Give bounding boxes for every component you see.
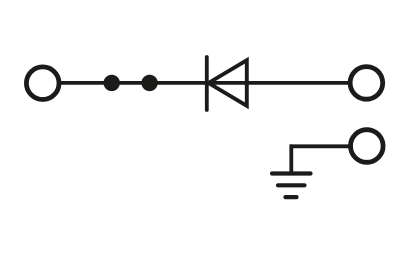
- wire: vertical ground stem: [289, 144, 293, 173]
- diode D1 cathode bar: [205, 57, 209, 110]
- terminal circle right top (clamp point 2): [350, 67, 383, 100]
- ground: middle bar: [278, 183, 305, 187]
- terminal circle bottom right (PE clamp point): [351, 130, 384, 163]
- diode D1 anode triangle (pointing left): [209, 60, 247, 106]
- ground: bottom bar: [286, 195, 297, 199]
- terminal circle left (clamp point 1): [26, 67, 59, 100]
- wire: main horizontal conductor between left and right terminals: [59, 81, 350, 85]
- ground: top bar: [272, 171, 311, 175]
- wire: horizontal from ground stem to PE terminal: [290, 144, 351, 148]
- node junction dot 1: [104, 75, 120, 91]
- node junction dot 2: [141, 75, 157, 91]
